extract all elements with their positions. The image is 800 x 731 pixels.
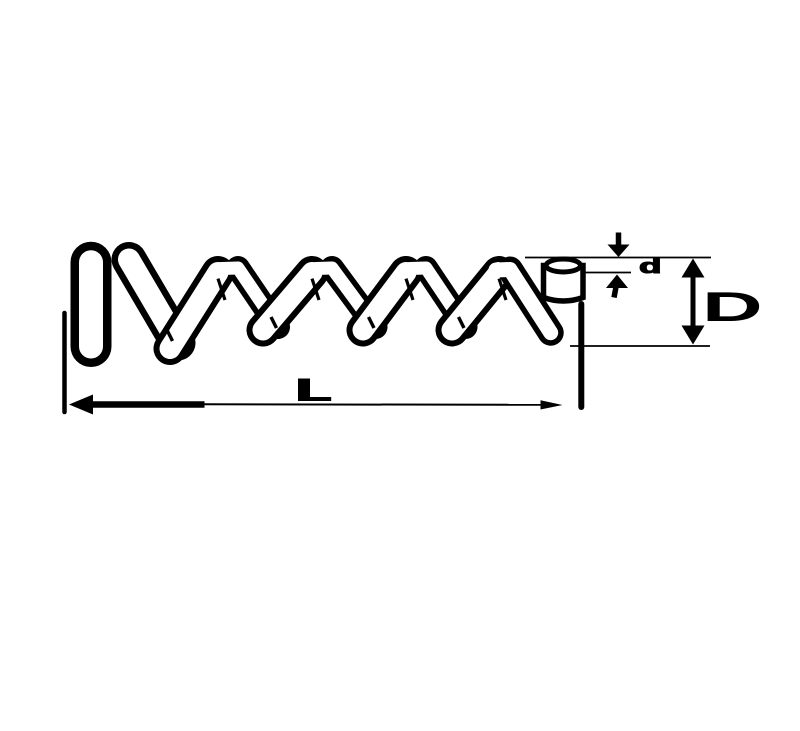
svg-text:D: D: [702, 284, 763, 331]
spring: valley wedge 5: [459, 317, 465, 328]
spring: peak fold 3: [218, 279, 225, 300]
spring: peak fold 4: [312, 279, 319, 300]
spring: coil 3 front band (ascending): [263, 273, 312, 331]
label L: [298, 379, 331, 402]
spring: valley wedge 4: [369, 317, 375, 328]
D bottom line: [570, 345, 710, 347]
spring: end coil capsule: [71, 262, 112, 346]
spring: valley wedge 3: [271, 317, 277, 328]
L dimension line: right arrowhead: [541, 400, 563, 409]
spring: peak fold 6: [499, 279, 506, 300]
D dimension vertical line with arrows: [682, 259, 705, 345]
spring: coil 4 back band (descending): [410, 268, 466, 327]
L dimension line: thick left shaft: [92, 401, 205, 408]
dimension line d bottom: [583, 272, 631, 274]
spring: wire end stub cylinder: [544, 259, 584, 301]
svg-text:d: d: [639, 255, 662, 278]
spring: valley wedge 2: [167, 330, 173, 341]
L dimension line: left arrowhead: [69, 395, 93, 415]
extension line left (L): [62, 313, 67, 412]
dimension line d top (behind spring): [525, 257, 711, 259]
spring: coil 2 front band (ascending): [170, 273, 218, 349]
spring: peak fold 5: [406, 279, 413, 300]
spring: coil 3 back band (descending): [316, 268, 376, 327]
spring: coil 2 back band (descending): [222, 268, 278, 327]
spring: coil 4 front band (ascending): [363, 273, 406, 331]
extension line right (L): [578, 304, 584, 407]
spring: coil 5 back band (descending, wire end): [496, 270, 551, 333]
d up arrow: [606, 275, 628, 298]
d down arrow: [608, 233, 630, 258]
spring: coil 5 front band (ascending): [452, 273, 499, 331]
spring: coil 1 back band (descending): [129, 260, 178, 344]
L dimension line: thin right shaft: [205, 403, 542, 406]
